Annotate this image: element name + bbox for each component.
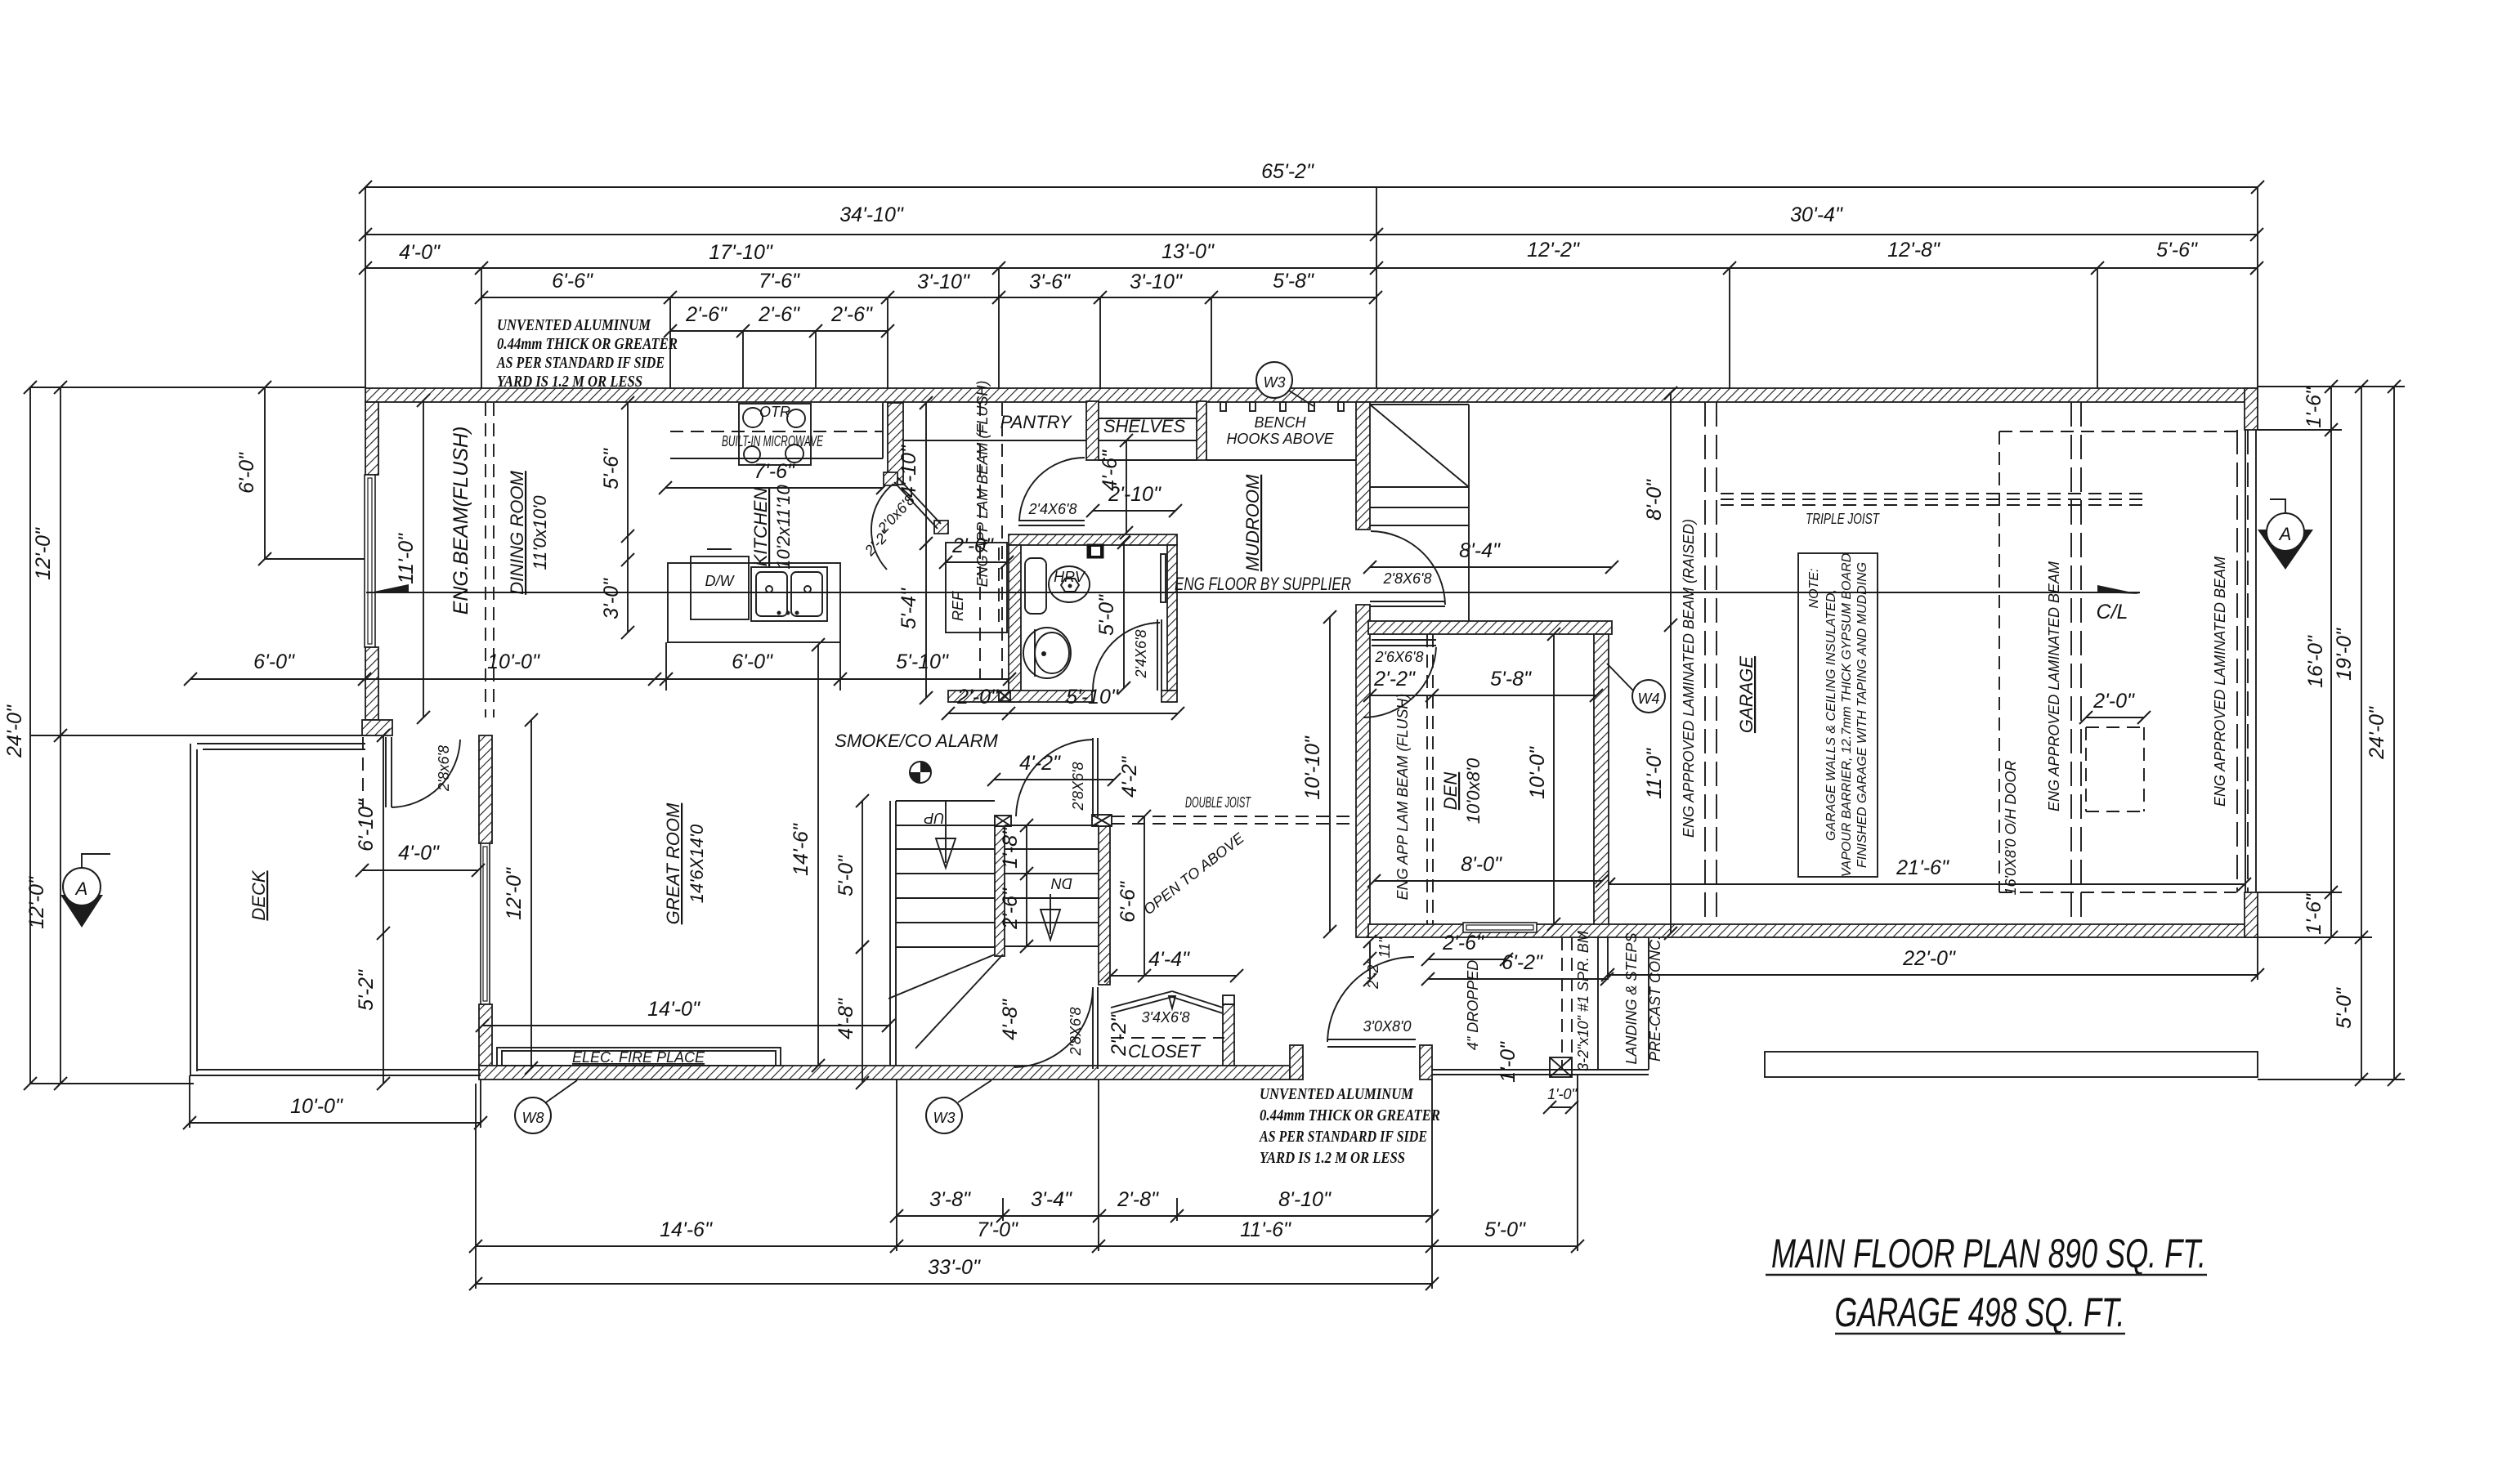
bath vanity xyxy=(1025,558,1046,614)
garage door step dashed xyxy=(2086,727,2144,811)
svg-text:5'-6": 5'-6" xyxy=(600,448,623,489)
svg-text:2'8X6'8: 2'8X6'8 xyxy=(1068,1008,1084,1057)
stair east wall / closet west wall xyxy=(1099,826,1110,985)
dim 5'-6 and 3'-0 dining xyxy=(600,396,634,639)
svg-text:AS PER STANDARD IF SIDE: AS PER STANDARD IF SIDE xyxy=(495,354,665,372)
garage raised beam label xyxy=(1681,519,1697,838)
dim 2'-10 mudroom xyxy=(1086,483,1182,517)
dim 2'-0 fridge xyxy=(939,534,1014,569)
bath east wall xyxy=(1167,545,1177,691)
svg-text:VAPOUR BARRIER, 12.7mm THICK G: VAPOUR BARRIER, 12.7mm THICK GYPSUM BOAR… xyxy=(1840,552,1854,877)
section cut line A-A xyxy=(366,592,2140,593)
stair dn arrow xyxy=(1041,875,1072,940)
porch dropped label xyxy=(1465,960,1481,1050)
svg-text:2'8x6'8: 2'8x6'8 xyxy=(436,745,452,792)
dim 2'-0 garage step xyxy=(2079,690,2151,724)
svg-text:4'-0": 4'-0" xyxy=(399,241,441,264)
dimension row 2'-6 x3 xyxy=(664,303,894,337)
porch beam label xyxy=(1575,931,1591,1071)
great room window xyxy=(481,843,490,1004)
right dim 19'-0/5'-0 xyxy=(2333,380,2368,1086)
bottom dim row 3'-8/3'-4/2'-8/8'-10 xyxy=(890,1188,1439,1223)
svg-text:DEN: DEN xyxy=(1440,772,1461,811)
dim 4'-2 hall door xyxy=(987,752,1121,786)
corridor door 2'4X6'8 xyxy=(1018,458,1085,525)
svg-text:NOTE:: NOTE: xyxy=(1807,569,1821,609)
eng beam flush label xyxy=(450,427,472,615)
svg-text:14'-6": 14'-6" xyxy=(660,1218,713,1241)
den south window xyxy=(1463,923,1537,932)
dim 8'-0 den xyxy=(1367,853,1609,887)
pantry west wall xyxy=(888,403,903,485)
svg-text:LANDING & STEPS: LANDING & STEPS xyxy=(1623,932,1640,1064)
svg-text:10'-0": 10'-0" xyxy=(1526,746,1549,799)
shelves label xyxy=(1103,416,1186,436)
svg-text:DOUBLE JOIST: DOUBLE JOIST xyxy=(1185,794,1251,811)
garage label xyxy=(1736,656,1757,733)
svg-text:8'-10": 8'-10" xyxy=(1278,1188,1332,1211)
triple joist label xyxy=(1806,511,1881,527)
svg-text:11'-0": 11'-0" xyxy=(395,533,418,584)
svg-text:2'-0": 2'-0" xyxy=(956,686,999,708)
dim 4'-8 stair left xyxy=(835,941,869,1089)
den beam dashed xyxy=(1427,634,1433,924)
svg-text:17'-10": 17'-10" xyxy=(709,241,773,264)
svg-text:13'-0": 13'-0" xyxy=(1162,240,1215,263)
svg-text:14'-0": 14'-0" xyxy=(647,998,700,1021)
left outer dim 24'-0" xyxy=(3,381,37,1090)
kitchen beam dashed lines xyxy=(980,403,1002,680)
top dim extension lines xyxy=(365,187,2258,403)
dim 8'-0/11'-0 garage xyxy=(1643,387,1677,940)
dim 6'-2 entry xyxy=(1421,951,1614,986)
svg-text:12'-2": 12'-2" xyxy=(1527,239,1580,261)
den beam label xyxy=(1394,694,1411,901)
svg-text:5'-4": 5'-4" xyxy=(897,588,920,629)
svg-text:UP: UP xyxy=(924,810,944,826)
dim 5'-0 stairs xyxy=(835,794,869,954)
svg-text:2'-2": 2'-2" xyxy=(1108,1014,1130,1057)
svg-text:7'-0": 7'-0" xyxy=(977,1218,1018,1241)
svg-text:4'-4": 4'-4" xyxy=(1148,948,1190,971)
svg-text:TRIPLE JOIST: TRIPLE JOIST xyxy=(1806,511,1881,527)
note box xyxy=(1798,553,1878,877)
newel post stair right xyxy=(1092,815,1112,826)
pantry shelf line xyxy=(903,440,1086,441)
svg-text:6'-0": 6'-0" xyxy=(732,650,773,673)
dim 4'-10/5'-4 kitchen east xyxy=(897,396,933,704)
svg-text:ENG APPROVED LAMINATED BEAM: ENG APPROVED LAMINATED BEAM xyxy=(2046,561,2062,811)
dim 1'-0 post xyxy=(1497,1041,1578,1114)
porch beam dashed xyxy=(1562,937,1572,1070)
svg-text:2'4X6'8: 2'4X6'8 xyxy=(1028,501,1077,517)
svg-text:OTR: OTR xyxy=(759,404,790,420)
svg-text:2'-6": 2'-6" xyxy=(758,303,800,326)
dim row 6'-0/10'-0/6'-0/5'-10 xyxy=(184,650,1016,686)
svg-text:BUILT-IN MICROWAVE: BUILT-IN MICROWAVE xyxy=(722,433,824,449)
bottom dim row 14'-6/7'-0/11'-6/5'-0 xyxy=(469,1218,1584,1253)
angled door 2'0x6'8 xyxy=(861,472,948,570)
dim 6'-10/5'-2 left xyxy=(355,729,390,1090)
svg-text:2'-10": 2'-10" xyxy=(1108,483,1162,506)
svg-text:BENCH: BENCH xyxy=(1254,414,1306,431)
built-in microwave label xyxy=(722,433,824,449)
note text xyxy=(1807,552,1869,877)
garage raised beam dashed xyxy=(1705,402,1717,924)
svg-text:2'-6": 2'-6" xyxy=(1442,932,1484,954)
svg-text:65'-2": 65'-2" xyxy=(1261,160,1314,183)
svg-text:3'4X6'8: 3'4X6'8 xyxy=(1142,1009,1190,1026)
svg-text:11": 11" xyxy=(1376,936,1393,959)
svg-text:3'-4": 3'-4" xyxy=(1031,1188,1072,1211)
fridge REF xyxy=(946,543,1007,632)
smoke alarm label xyxy=(835,731,998,751)
svg-text:2'8X6'8: 2'8X6'8 xyxy=(1070,762,1086,811)
garage dim 22'-0 xyxy=(1601,937,2264,981)
svg-text:ENG APPROVED LAMINATED BEAM: ENG APPROVED LAMINATED BEAM xyxy=(2212,556,2228,807)
dimension 34'-10" house width xyxy=(359,203,2263,241)
svg-text:A: A xyxy=(2278,524,2292,544)
svg-text:2'-0": 2'-0" xyxy=(2092,690,2135,713)
svg-text:UNVENTED ALUMINUM: UNVENTED ALUMINUM xyxy=(497,316,651,334)
closet rod symbol xyxy=(1111,991,1223,1013)
svg-text:6'-0": 6'-0" xyxy=(253,650,295,673)
svg-text:2'-6": 2'-6" xyxy=(999,887,1022,930)
shelves lines xyxy=(1099,418,1197,460)
left wall below window xyxy=(365,647,378,720)
closet label xyxy=(1128,1009,1202,1062)
svg-text:19'-0": 19'-0" xyxy=(2333,628,2356,681)
svg-text:5'-2": 5'-2" xyxy=(355,969,378,1011)
svg-text:2'-6": 2'-6" xyxy=(685,303,727,326)
den door 2'6X6'8 xyxy=(1363,640,1436,717)
garage beam label 1 xyxy=(2046,561,2062,811)
svg-text:6'-6": 6'-6" xyxy=(1117,881,1139,923)
double joist dashed xyxy=(1112,816,1356,824)
svg-text:YARD IS 1.2 M OR LESS: YARD IS 1.2 M OR LESS xyxy=(1260,1149,1405,1167)
svg-text:1'-6": 1'-6" xyxy=(2303,893,2325,935)
left inner dims 12'-0" x2 xyxy=(25,381,67,1090)
svg-text:7'-6": 7'-6" xyxy=(759,270,800,293)
coat hooks xyxy=(1220,402,1344,411)
pantry east wall xyxy=(1086,401,1099,460)
garage landing wall xyxy=(1468,405,1470,621)
svg-text:3'-8": 3'-8" xyxy=(929,1188,971,1211)
garage landing triangle xyxy=(1370,405,1469,487)
svg-text:4" DROPPED: 4" DROPPED xyxy=(1465,960,1481,1050)
svg-text:REF: REF xyxy=(950,591,966,621)
svg-text:12'-0": 12'-0" xyxy=(25,876,48,929)
svg-text:5'-8": 5'-8" xyxy=(1490,668,1532,691)
svg-text:24'-0": 24'-0" xyxy=(2366,706,2388,760)
entry wall stub right xyxy=(1420,1045,1432,1079)
dim 6'-0 left window xyxy=(235,381,365,565)
svg-text:21'-6": 21'-6" xyxy=(1896,856,1949,879)
svg-text:W4: W4 xyxy=(1638,691,1660,707)
garage beam dash-dot xyxy=(2071,402,2081,924)
double joist label xyxy=(1185,794,1251,811)
dim 14'-0 great room width xyxy=(476,998,895,1032)
svg-text:ENG APP LAM BEAM (FLUSH): ENG APP LAM BEAM (FLUSH) xyxy=(974,381,991,588)
svg-text:16'-0": 16'-0" xyxy=(2304,635,2327,688)
dim 2'-6 den window xyxy=(1421,932,1513,966)
dim 6'-6 open area xyxy=(1117,810,1151,982)
svg-text:11'-0": 11'-0" xyxy=(1643,748,1666,799)
svg-text:GARAGE 498 SQ. FT.: GARAGE 498 SQ. FT. xyxy=(1835,1290,2125,1335)
svg-text:SMOKE/CO ALARM: SMOKE/CO ALARM xyxy=(835,731,998,751)
dim 4'-4 closet xyxy=(1104,948,1243,982)
right dim extension lines xyxy=(2258,387,2405,1079)
svg-text:UNVENTED ALUMINUM: UNVENTED ALUMINUM xyxy=(1260,1085,1414,1103)
svg-text:3'-10": 3'-10" xyxy=(1130,270,1183,293)
svg-text:8'-0": 8'-0" xyxy=(1461,853,1502,876)
svg-text:11'0x10'0: 11'0x10'0 xyxy=(530,495,550,570)
garage overhead door dashed outline xyxy=(1999,430,2248,892)
svg-text:2'-2": 2'-2" xyxy=(1365,958,1381,989)
bath west wall xyxy=(1009,545,1021,702)
W8 marker xyxy=(515,1080,577,1133)
smoke alarm symbol xyxy=(910,762,931,783)
great room west wall upper xyxy=(479,735,492,843)
newel post stair left xyxy=(995,816,1011,826)
entry corner wall stub xyxy=(1290,1045,1303,1079)
bath HRV xyxy=(1049,566,1090,602)
garage dim 21'-6 xyxy=(1602,856,2251,891)
svg-text:4'-8": 4'-8" xyxy=(999,999,1022,1040)
svg-text:GARAGE: GARAGE xyxy=(1736,656,1757,733)
dim 2'-2 closet xyxy=(1108,1014,1130,1057)
title main floor plan xyxy=(1766,1231,2207,1276)
deck dim 10'-0 xyxy=(183,1075,487,1129)
eng app lam beam flush label kitchen xyxy=(974,381,991,588)
fireplace xyxy=(497,1048,781,1066)
dining window left wall xyxy=(365,475,375,647)
stair dn treads xyxy=(1005,825,1099,946)
svg-text:3-2"x10" #1 SPR. BM: 3-2"x10" #1 SPR. BM xyxy=(1575,931,1591,1071)
bath mirror xyxy=(1161,554,1166,602)
svg-text:DN: DN xyxy=(1050,875,1072,892)
svg-text:W3: W3 xyxy=(933,1110,956,1126)
eng floor by supplier label xyxy=(1175,574,1351,594)
bath door 2'4X6'8 xyxy=(1093,619,1162,691)
dimension row 4'-0/17'-10/13'-0/12'-2/12'-8/5'-6 xyxy=(359,239,2263,275)
section arrow right C/L xyxy=(2097,585,2140,624)
pantry label xyxy=(1000,412,1072,432)
svg-text:MUDROOM: MUDROOM xyxy=(1242,474,1263,571)
left wall upper segment xyxy=(365,402,378,475)
dimension 65'-2" overall width xyxy=(359,160,2264,194)
dim 2'-2/5'-8 den xyxy=(1363,668,1603,702)
svg-text:AS PER STANDARD IF SIDE: AS PER STANDARD IF SIDE xyxy=(1258,1128,1427,1146)
svg-text:16'0X8'0 O/H DOOR: 16'0X8'0 O/H DOOR xyxy=(2003,761,2019,896)
svg-text:3'-6": 3'-6" xyxy=(1029,270,1071,293)
svg-text:4'-8": 4'-8" xyxy=(835,998,857,1039)
svg-text:2'4X6'8: 2'4X6'8 xyxy=(1133,630,1149,679)
svg-text:22'-0": 22'-0" xyxy=(1902,947,1956,970)
bath south wall right stub xyxy=(1162,691,1177,702)
svg-text:ENG.BEAM(FLUSH): ENG.BEAM(FLUSH) xyxy=(450,427,472,615)
svg-text:1'-0": 1'-0" xyxy=(1547,1086,1578,1102)
svg-text:10'0x8'0: 10'0x8'0 xyxy=(1463,758,1484,824)
svg-text:5'-10": 5'-10" xyxy=(896,650,949,673)
dim 10'-10 hall xyxy=(1301,610,1336,938)
svg-text:2'8X6'8: 2'8X6'8 xyxy=(1383,570,1432,587)
den label xyxy=(1440,758,1484,824)
svg-text:6'-0": 6'-0" xyxy=(235,452,258,494)
svg-text:MAIN FLOOR PLAN 890 SQ. FT.: MAIN FLOOR PLAN 890 SQ. FT. xyxy=(1771,1231,2206,1276)
svg-text:33'-0": 33'-0" xyxy=(928,1256,981,1279)
dim 14'-6 great room xyxy=(790,638,825,1072)
svg-text:2'-2": 2'-2" xyxy=(1373,668,1416,691)
svg-text:3'-10": 3'-10" xyxy=(917,270,970,293)
stair dn dashed xyxy=(1027,848,1099,850)
svg-text:11'-6": 11'-6" xyxy=(1240,1218,1291,1241)
bottom dim 33'-0 xyxy=(469,1256,1439,1290)
dim 4'-2 right rotated xyxy=(1118,756,1141,798)
bath toilet xyxy=(1023,628,1071,678)
stair up left rail xyxy=(890,801,896,1066)
dim 4'-6 mudroom xyxy=(1099,434,1133,539)
svg-text:30'-4": 30'-4" xyxy=(1790,203,1843,226)
svg-text:1'-6": 1'-6" xyxy=(2303,387,2325,428)
garage east wall top xyxy=(2245,388,2258,430)
stove xyxy=(739,404,811,465)
svg-text:5'-0": 5'-0" xyxy=(1095,594,1118,636)
svg-text:2'-8": 2'-8" xyxy=(1117,1188,1159,1211)
svg-text:4'-2": 4'-2" xyxy=(1019,752,1061,775)
dim 11 and 2'-2 entry xyxy=(1363,935,1393,990)
svg-text:5'-0": 5'-0" xyxy=(835,855,857,896)
svg-text:GARAGE WALLS & CEILING INSULAT: GARAGE WALLS & CEILING INSULATED, xyxy=(1824,589,1838,841)
svg-text:3'0X8'0: 3'0X8'0 xyxy=(1363,1018,1412,1035)
svg-text:ENG FLOOR BY SUPPLIER: ENG FLOOR BY SUPPLIER xyxy=(1175,574,1351,594)
dim 2'-0/5'-10 bath bottom xyxy=(942,686,1184,720)
svg-text:CLOSET: CLOSET xyxy=(1128,1041,1202,1062)
dishwasher xyxy=(691,549,749,619)
garage landing steps xyxy=(1370,487,1469,525)
section marker A left xyxy=(60,854,110,927)
porch edge xyxy=(1432,937,1649,1075)
porch post xyxy=(1550,1057,1572,1077)
great room west wall lower xyxy=(479,1004,492,1066)
svg-text:6'-6": 6'-6" xyxy=(552,270,593,293)
dim 11'-0 dining xyxy=(395,394,430,724)
dim 12'-0 great room xyxy=(503,713,538,1075)
stair center wall xyxy=(995,826,1005,956)
deck door 2'8x6'8 xyxy=(363,737,460,807)
svg-text:0.44mm THICK OR GREATER: 0.44mm THICK OR GREATER xyxy=(1260,1106,1440,1124)
stair up arrow xyxy=(924,802,956,868)
right dim 24'-0 xyxy=(2366,380,2401,1086)
svg-text:6'-10": 6'-10" xyxy=(355,798,378,852)
svg-text:34'-10": 34'-10" xyxy=(839,203,904,226)
svg-text:4'-0": 4'-0" xyxy=(398,842,440,865)
svg-text:5'-8": 5'-8" xyxy=(1273,270,1314,293)
right dim 1'-6/16'-0/1'-6 xyxy=(2303,380,2338,944)
dim 5'-0 bath xyxy=(1095,536,1130,695)
svg-text:W8: W8 xyxy=(522,1110,544,1126)
newel post bath xyxy=(999,691,1010,701)
kitchen sink xyxy=(751,567,827,621)
svg-text:1'-8": 1'-8" xyxy=(999,827,1022,869)
svg-text:W3: W3 xyxy=(1264,374,1286,391)
svg-text:6'-2": 6'-2" xyxy=(1502,951,1543,974)
dim 1'-8/2'-6 stair xyxy=(999,819,1033,953)
svg-text:ELEC. FIRE PLACE: ELEC. FIRE PLACE xyxy=(572,1049,705,1066)
svg-text:PRE-CAST CONC.: PRE-CAST CONC. xyxy=(1647,936,1663,1062)
island dim extensions xyxy=(666,642,840,691)
svg-text:2'6X6'8: 2'6X6'8 xyxy=(1375,649,1424,665)
svg-text:5'-10": 5'-10" xyxy=(1066,686,1119,708)
svg-text:7'-6": 7'-6" xyxy=(754,460,795,483)
deck label xyxy=(248,869,269,920)
svg-text:12'-8": 12'-8" xyxy=(1887,239,1940,261)
north exterior wall xyxy=(365,388,2258,402)
concrete pad xyxy=(1765,1052,2258,1077)
svg-text:12'-0": 12'-0" xyxy=(32,527,55,580)
front door 3'0X8'0 xyxy=(1327,957,1416,1047)
dining room label xyxy=(507,471,550,595)
svg-text:YARD IS 1.2 M OR LESS: YARD IS 1.2 M OR LESS xyxy=(497,373,642,391)
garage door jamb lines xyxy=(2245,430,2256,892)
hall door 2'8X6'8 top xyxy=(1016,738,1098,817)
mudroom-garage door 2'8X6'8 xyxy=(1370,531,1445,606)
den & garage south wall xyxy=(1368,924,2258,937)
south exterior wall xyxy=(479,1066,1290,1079)
svg-text:10'2x11'10: 10'2x11'10 xyxy=(773,485,794,570)
dining beam dashed lines xyxy=(486,403,494,717)
svg-text:24'-0": 24'-0" xyxy=(3,704,26,758)
bottom dim extension lines xyxy=(476,1071,1578,1289)
svg-text:5'-6": 5'-6" xyxy=(2156,239,2198,261)
svg-text:1'-0": 1'-0" xyxy=(1497,1041,1520,1083)
svg-text:8'-4": 8'-4" xyxy=(1459,539,1501,562)
kitchen upper cabinet dashed line xyxy=(670,431,883,432)
svg-text:KITCHEN: KITCHEN xyxy=(750,488,771,567)
svg-text:DINING ROOM: DINING ROOM xyxy=(507,471,527,595)
svg-text:FINISHED GARAGE WITH TAPING AN: FINISHED GARAGE WITH TAPING AND MUDDING xyxy=(1855,562,1869,868)
left wall step corner xyxy=(362,720,392,735)
svg-text:D/W: D/W xyxy=(705,573,736,589)
deck outline xyxy=(190,744,481,1075)
svg-text:5'-0": 5'-0" xyxy=(1484,1218,1526,1241)
dim 4'-0 step xyxy=(356,842,485,877)
triple joist dashed xyxy=(1721,494,2148,505)
house-garage divider wall upper xyxy=(1356,402,1370,530)
bench label xyxy=(1226,414,1334,447)
bench wall stub xyxy=(1197,401,1206,460)
section arrow left xyxy=(366,584,409,593)
svg-text:HRV: HRV xyxy=(1054,569,1086,585)
dimension row 6'-6/7'-6/3'-10/3'-6/3'-10/5'-8 xyxy=(475,270,1382,304)
svg-text:C/L: C/L xyxy=(2097,601,2128,624)
svg-text:8'-0": 8'-0" xyxy=(1643,479,1666,521)
house-garage divider wall lower xyxy=(1356,605,1370,937)
garage beam label 2 xyxy=(2212,556,2228,807)
garage east wall bottom xyxy=(2245,892,2258,937)
section marker A right xyxy=(2258,499,2313,570)
svg-text:10'-0": 10'-0" xyxy=(290,1095,343,1118)
svg-text:HOOKS ABOVE: HOOKS ABOVE xyxy=(1226,431,1334,447)
W3 marker top xyxy=(1256,362,1314,406)
svg-text:5'-0": 5'-0" xyxy=(2333,987,2356,1029)
svg-text:12'-0": 12'-0" xyxy=(503,867,526,920)
stair up treads xyxy=(896,801,995,947)
bench outline xyxy=(1206,459,1356,461)
W3 marker bottom xyxy=(926,1080,991,1133)
unvented note bottom xyxy=(1258,1085,1440,1167)
closet notch xyxy=(1223,995,1234,1004)
